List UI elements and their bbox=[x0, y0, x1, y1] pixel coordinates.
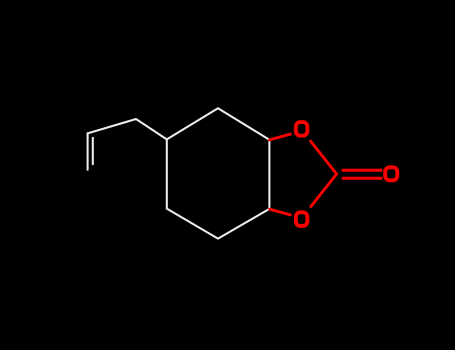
atom label O3 (bottom ring oxygen) bbox=[296, 212, 308, 226]
bond C3a-O3 (red) bbox=[270, 209, 291, 215]
vinyl C=C main line (white, vertical) bbox=[87, 133, 89, 169]
bond O3-C2 (red) bbox=[311, 174, 337, 207]
allyl chain bonds C6-CH2-CH (white) bbox=[88, 119, 167, 139]
atom label O (carbonyl oxygen) bbox=[385, 167, 397, 180]
ring C7a-C7-C6-C5-C4-C3a with fused edge C3a-C7a bbox=[167, 108, 270, 238]
bond C7a-O1 (red) bbox=[270, 134, 291, 140]
vinyl C=C inner double-bond line (white) bbox=[92, 138, 94, 164]
C2=O double bond lower line (red) bbox=[342, 177, 383, 180]
C2=O double bond upper line (red) bbox=[342, 169, 383, 172]
cyclohexane ring (white skeleton) bbox=[167, 108, 270, 238]
atom label O1 (top ring oxygen) bbox=[296, 122, 308, 136]
bond O1-C2 (red) bbox=[311, 141, 337, 174]
